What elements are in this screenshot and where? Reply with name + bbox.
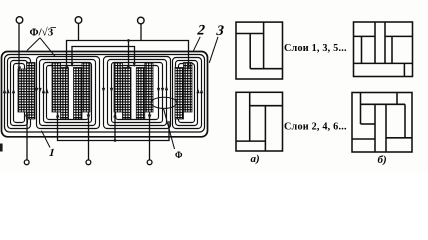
a246 top yoke divider [250,105,283,107]
b246 top band divider [396,93,398,105]
bottom lead coil B5 to terminal T6 [149,112,151,160]
terminal T1 [16,17,23,24]
top bus 1 [67,41,189,70]
svg-text:Слои 1, 3, 5...: Слои 1, 3, 5... [284,43,347,54]
a246 left limb divider [249,92,251,141]
terminal T2 [75,17,82,24]
terminal T3 [138,17,145,24]
leader for label 2 [193,37,200,52]
bottom bus [58,112,170,141]
coil B4 [114,63,131,120]
b246 right mid divider [404,104,406,138]
flux loop U4 around coil B6 [173,58,202,129]
junction dot [127,39,130,42]
b135 bottom band divider [403,63,405,76]
coil B2 [52,63,69,120]
flux direction arrows down [35,88,38,93]
leader for label 1 [42,131,51,148]
b246 left mid divider [361,123,376,125]
leader for label 3 [209,37,218,63]
b135 lower yoke divider [354,62,413,64]
flux ellipse marker [151,97,177,108]
lamination diagram a layers135 outline [236,22,283,79]
flux loop U3 around coils B4 B5 [104,57,171,129]
label 1 [48,147,56,159]
a135 top yoke plate divider [236,33,264,35]
leader ellipse to flux label [164,109,175,150]
coil B5 [136,63,153,120]
bottom lead coil B1 to terminal T4 [26,112,28,160]
a135 right limb plate divider [263,22,265,69]
a246 right limb divider [264,106,266,151]
b246 left column divider [360,93,362,125]
svg-text:Φ: Φ [175,150,183,160]
terminal T5 [86,160,91,165]
terminal T6 [147,160,152,165]
flux direction arrows up [6,89,9,94]
flux loop U2 around coils B2 B3 [37,57,100,129]
label 3 [215,23,226,39]
bottom bus stub from coil B4 [114,112,116,141]
lead from T2 to top bus [78,23,80,40]
b135 center limb plate [375,22,385,63]
coil B3 [74,63,91,120]
b135 upper yoke dividers [354,35,413,37]
svg-text:Φ/√3̅: Φ/√3̅ [30,27,57,39]
junction dot bottom [114,139,117,142]
b135 left column divider [361,36,363,63]
coil B1 [18,63,35,120]
core outer border [2,52,208,137]
flux loop U1 around coil B1 [8,58,31,129]
lamination diagram b layers135 outline [354,22,413,77]
top bus 1 mid drop into coil B4 [128,41,130,70]
a135 bottom yoke plate divider [250,68,282,70]
terminal T4 [24,160,29,165]
arrowheads on coil leads bottom [25,115,29,120]
b246 center limb plate [375,104,386,152]
a246 bottom yoke divider [236,140,265,142]
b135 right limb divider [391,36,393,63]
svg-text:б): б) [378,154,387,166]
lead from T3 to top bus [140,24,142,41]
svg-text:а): а) [251,153,260,165]
core inner border [5,55,205,133]
leader lines for flux label F/sqrt3 [27,38,55,57]
lead from T1 into coil B1 [18,23,20,69]
b246 mid yoke dividers [352,138,412,139]
label 2 [196,23,207,39]
svg-text:Слои 2, 4, 6...: Слои 2, 4, 6... [284,122,347,133]
arrowheads on coil leads top [3,62,203,120]
lamination diagram a layers246 outline [236,92,283,151]
page edge mark [0,144,3,152]
bottom lead coil B3 to terminal T5 [88,112,90,160]
a135 center divider [249,34,251,69]
top bus 2 [72,47,135,67]
lamination diagram b layers246 outline [352,93,412,153]
b246 top yoke divider [361,103,406,105]
coil B6 [175,63,192,120]
